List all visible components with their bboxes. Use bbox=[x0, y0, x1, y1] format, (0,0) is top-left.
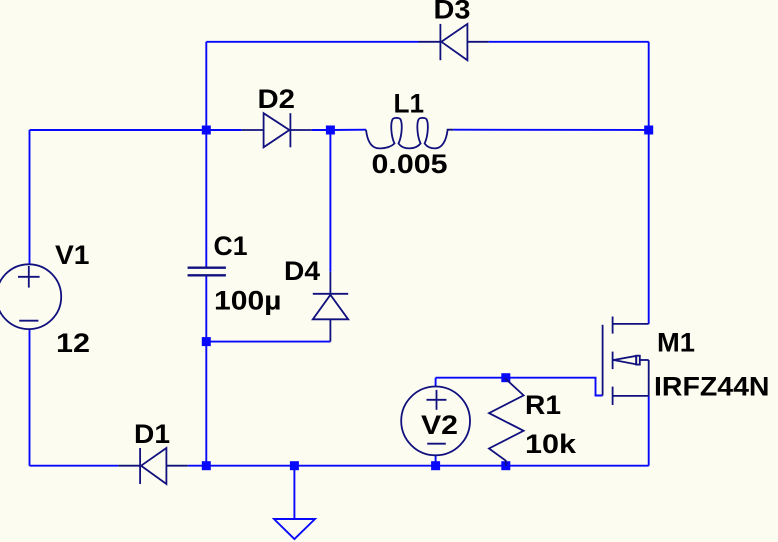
wire D4 top vertical bbox=[329, 130, 331, 272]
wire top-left vertical bbox=[205, 42, 207, 130]
wire bottom rail left of D1 bbox=[30, 465, 119, 467]
node J2 D2 right bbox=[326, 126, 335, 135]
wire C1 bottom vertical bbox=[205, 275, 207, 466]
node J1 left-top bbox=[202, 126, 211, 135]
wire L1 row right bbox=[453, 129, 648, 131]
svg-text:D4: D4 bbox=[284, 256, 320, 286]
diode D1 bbox=[118, 448, 188, 484]
wire top rail left of D3 bbox=[206, 41, 418, 43]
wire L1 row left bbox=[330, 129, 366, 131]
wire V2 bottom stub bbox=[435, 455, 437, 465]
node J9 R1 top bbox=[501, 373, 510, 382]
wire V1 left vertical bottom bbox=[29, 329, 31, 466]
wire D2 row right bbox=[312, 129, 331, 131]
transistor M1 bbox=[603, 317, 649, 406]
inductor L1 bbox=[366, 118, 453, 149]
node J5 bottom below C1 bbox=[202, 461, 211, 470]
node J7 V2 bottom bbox=[431, 461, 440, 470]
svg-text:100µ: 100µ bbox=[214, 285, 282, 315]
svg-text:IRFZ44N: IRFZ44N bbox=[654, 372, 770, 402]
voltage source V2 bbox=[401, 387, 470, 456]
wire top rail right of D3 bbox=[489, 41, 649, 43]
resistor R1 bbox=[489, 378, 524, 466]
wire D4 bottom to C1 junction bbox=[206, 341, 330, 343]
diode D4 bbox=[313, 272, 348, 342]
junction nodes bbox=[202, 126, 653, 471]
wire V2 top stub bbox=[435, 378, 437, 387]
svg-text:V2: V2 bbox=[421, 410, 458, 440]
voltage source V1 bbox=[0, 264, 61, 329]
svg-text:0.005: 0.005 bbox=[372, 149, 448, 179]
node J6 ground bbox=[290, 461, 299, 470]
svg-text:R1: R1 bbox=[525, 390, 561, 420]
wire V1 left vertical top bbox=[29, 130, 31, 265]
svg-text:D1: D1 bbox=[134, 419, 170, 449]
diode D3 bbox=[419, 24, 489, 60]
svg-text:V1: V1 bbox=[55, 240, 90, 270]
ground bbox=[274, 466, 315, 539]
wire C1 top vertical bbox=[205, 130, 207, 268]
svg-text:C1: C1 bbox=[214, 231, 248, 261]
svg-text:12: 12 bbox=[56, 328, 90, 358]
wire gate net bbox=[436, 378, 603, 396]
wire D2 row left bbox=[206, 129, 241, 131]
wire V1 top horizontal bbox=[30, 129, 207, 131]
wire right vertical source bbox=[648, 396, 650, 466]
node J4 C1 bottom bbox=[202, 337, 211, 346]
svg-text:10k: 10k bbox=[525, 429, 577, 459]
capacitor C1 bbox=[188, 268, 226, 276]
node J3 right rail bbox=[644, 126, 653, 135]
svg-text:D2: D2 bbox=[258, 84, 296, 114]
diode D2 bbox=[242, 113, 312, 147]
svg-text:L1: L1 bbox=[394, 89, 425, 119]
wire bottom rail right of D1 bbox=[188, 465, 649, 467]
wire right vertical drain bbox=[648, 42, 650, 324]
svg-text:D3: D3 bbox=[434, 0, 471, 25]
node J8 R1 bottom bbox=[501, 461, 510, 470]
svg-text:M1: M1 bbox=[657, 327, 695, 357]
